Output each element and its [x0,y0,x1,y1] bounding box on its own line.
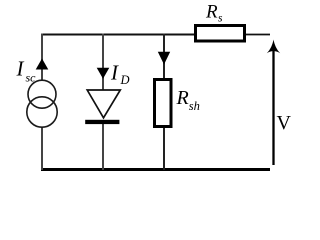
diode D1 cathode bar [85,120,119,124]
label I_D [110,61,130,88]
current source I_sc (two overlapping circles) [27,80,57,127]
resistor R_s (box) [196,26,245,42]
wire left branch lower [41,127,43,171]
resistor R_sh (box) [155,80,172,127]
svg-text:V: V [277,112,292,134]
wire diode branch lower [102,123,104,170]
wire shunt branch upper [163,34,165,80]
arrow down (shunt current) [158,52,170,65]
voltage arrow V (head) [267,40,280,54]
wire top horizontal left segment [41,34,195,36]
diode D1 (triangle) [87,90,120,118]
label R_sh [176,87,200,113]
label I_sc [16,57,37,85]
svg-text:I: I [16,57,25,81]
arrow up (current direction of I_sc) [36,59,49,70]
svg-text:D: D [120,73,130,87]
voltage arrow V (line) [272,50,274,165]
svg-text:R: R [176,87,189,109]
svg-text:R: R [205,2,218,23]
wire shunt branch lower [163,127,165,170]
svg-text:sh: sh [189,99,200,113]
svg-text:s: s [218,13,223,25]
wire diode branch upper [102,34,104,91]
wire left branch upper [41,34,43,82]
arrow down (diode current I_D) [97,68,110,79]
wire top horizontal right segment [245,34,270,36]
label R_s [205,2,223,25]
wire bottom horizontal [41,168,270,171]
svg-text:I: I [110,61,119,85]
svg-text:sc: sc [26,71,37,85]
